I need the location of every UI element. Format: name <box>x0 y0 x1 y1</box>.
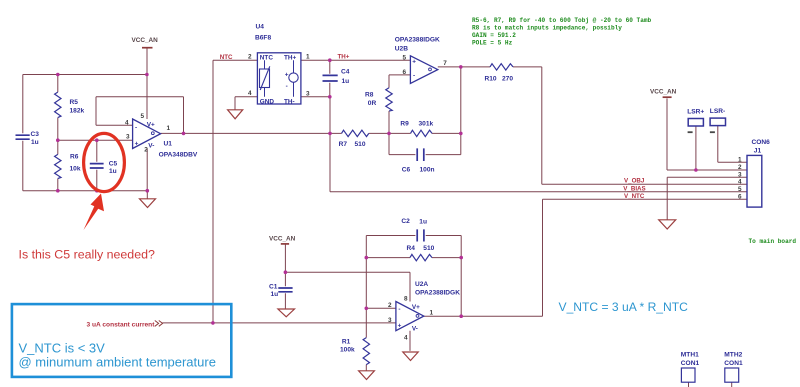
svg-text:3: 3 <box>738 171 742 178</box>
svg-text:C3: C3 <box>31 131 40 138</box>
svg-text:1u: 1u <box>419 218 427 225</box>
svg-text:1u: 1u <box>271 291 279 298</box>
svg-text:510: 510 <box>423 245 434 252</box>
svg-text:V-: V- <box>148 143 154 150</box>
svg-text:1u: 1u <box>109 168 117 175</box>
svg-text:4: 4 <box>125 119 129 126</box>
svg-text:MTH1: MTH1 <box>681 351 699 358</box>
svg-text:CON6: CON6 <box>752 139 771 146</box>
svg-text:6: 6 <box>403 69 407 76</box>
svg-text:2: 2 <box>388 302 392 309</box>
svg-text:MTH2: MTH2 <box>724 351 742 358</box>
svg-text:C2: C2 <box>401 218 410 225</box>
svg-text:10k: 10k <box>70 166 81 173</box>
svg-text:0R: 0R <box>368 100 377 107</box>
svg-text:U1: U1 <box>164 141 173 148</box>
svg-text:510: 510 <box>355 141 366 148</box>
svg-text:CON1: CON1 <box>681 360 700 367</box>
svg-text:3: 3 <box>388 317 392 324</box>
svg-text:301k: 301k <box>419 121 434 128</box>
svg-text:Is this C5 really needed?: Is this C5 really needed? <box>19 248 155 262</box>
svg-text:5: 5 <box>141 113 145 120</box>
svg-text:V_OBJ: V_OBJ <box>624 178 645 185</box>
svg-text:C1: C1 <box>269 283 278 290</box>
svg-text:VCC_AN: VCC_AN <box>650 89 677 96</box>
svg-text:-: - <box>135 125 137 132</box>
svg-text:R6: R6 <box>70 154 79 161</box>
svg-text:+: + <box>285 72 289 79</box>
svg-text:182k: 182k <box>70 108 85 115</box>
svg-text:1: 1 <box>738 156 742 163</box>
svg-text:2: 2 <box>144 147 148 154</box>
svg-text:5: 5 <box>738 186 742 193</box>
svg-text:R4: R4 <box>407 245 416 252</box>
svg-text:1: 1 <box>167 125 171 132</box>
svg-text:-: - <box>413 72 415 79</box>
svg-text:POLE = 5 Hz: POLE = 5 Hz <box>472 39 513 46</box>
svg-text:R8 is to match inputs impedanc: R8 is to match inputs impedance, possibl… <box>472 24 622 31</box>
svg-text:2: 2 <box>248 54 252 61</box>
svg-text:1: 1 <box>430 310 434 317</box>
svg-text:-: - <box>286 83 288 90</box>
svg-text:-: - <box>398 306 400 313</box>
svg-text:100k: 100k <box>340 347 355 354</box>
svg-text:TH-: TH- <box>284 98 295 105</box>
svg-text:U4: U4 <box>256 24 265 31</box>
svg-text:6: 6 <box>738 193 742 200</box>
svg-text:1: 1 <box>306 54 310 61</box>
svg-text:5: 5 <box>403 54 407 61</box>
svg-text:2: 2 <box>738 164 742 171</box>
svg-text:U2A: U2A <box>415 281 428 288</box>
svg-text:V_NTC = 3 uA * R_NTC: V_NTC = 3 uA * R_NTC <box>559 300 689 314</box>
svg-text:OPA348DBV: OPA348DBV <box>159 152 198 159</box>
svg-text:V_NTC is < 3V: V_NTC is < 3V <box>19 340 106 355</box>
svg-text:R8: R8 <box>365 91 374 98</box>
svg-text:4: 4 <box>404 334 408 341</box>
svg-text:1u: 1u <box>342 78 350 85</box>
svg-text:3: 3 <box>306 91 310 98</box>
svg-text:1u: 1u <box>31 139 39 146</box>
svg-text:4: 4 <box>738 178 742 185</box>
svg-text:+: + <box>398 322 402 329</box>
svg-text:B6F8: B6F8 <box>255 35 271 42</box>
svg-text:OPA2388IDGK: OPA2388IDGK <box>415 290 460 297</box>
svg-text:GND: GND <box>260 98 275 105</box>
svg-text:100n: 100n <box>420 167 435 174</box>
svg-text:C4: C4 <box>341 69 350 76</box>
svg-text:4: 4 <box>248 90 252 97</box>
svg-text:C6: C6 <box>402 167 411 174</box>
svg-text:VCC_AN: VCC_AN <box>132 37 159 44</box>
svg-text:7: 7 <box>443 60 447 67</box>
svg-text:V-: V- <box>412 325 418 332</box>
svg-text:R1: R1 <box>342 339 351 346</box>
svg-text:+: + <box>135 140 139 147</box>
svg-text:R5: R5 <box>70 99 79 106</box>
svg-text:C5: C5 <box>109 161 118 168</box>
svg-text:R7: R7 <box>339 141 348 148</box>
svg-text:V_NTC: V_NTC <box>624 193 645 200</box>
svg-text:R5-6, R7, R9 for -40 to 600 To: R5-6, R7, R9 for -40 to 600 Tobj @ -20 t… <box>472 17 652 24</box>
svg-text:To main board: To main board <box>749 238 797 245</box>
svg-text:R10: R10 <box>485 75 497 82</box>
svg-text:NTC: NTC <box>220 54 233 61</box>
svg-text:R9: R9 <box>400 121 409 128</box>
svg-text:V_BIAS: V_BIAS <box>623 185 645 192</box>
svg-text:U2B: U2B <box>395 46 408 53</box>
svg-text:+: + <box>412 58 416 65</box>
svg-text:TH+: TH+ <box>284 55 297 62</box>
svg-text:LSR+: LSR+ <box>687 108 704 115</box>
svg-text:8: 8 <box>404 296 408 303</box>
svg-text:V+: V+ <box>147 122 155 129</box>
svg-text:CON1: CON1 <box>724 360 743 367</box>
svg-text:VCC_AN: VCC_AN <box>269 235 296 242</box>
svg-text:NTC: NTC <box>260 55 274 62</box>
svg-text:TH+: TH+ <box>338 54 350 61</box>
svg-text:J1: J1 <box>754 147 762 154</box>
svg-text:V+: V+ <box>412 304 420 311</box>
svg-text:GAIN = 591.2: GAIN = 591.2 <box>472 32 516 39</box>
svg-text:270: 270 <box>502 75 513 82</box>
svg-text:@ minumum ambient temperature: @ minumum ambient temperature <box>19 355 216 370</box>
svg-text:3: 3 <box>126 133 130 140</box>
svg-text:3 uA constant current: 3 uA constant current <box>87 321 156 328</box>
svg-text:LSR-: LSR- <box>710 108 725 115</box>
svg-text:OPA2388IDGK: OPA2388IDGK <box>395 36 440 43</box>
